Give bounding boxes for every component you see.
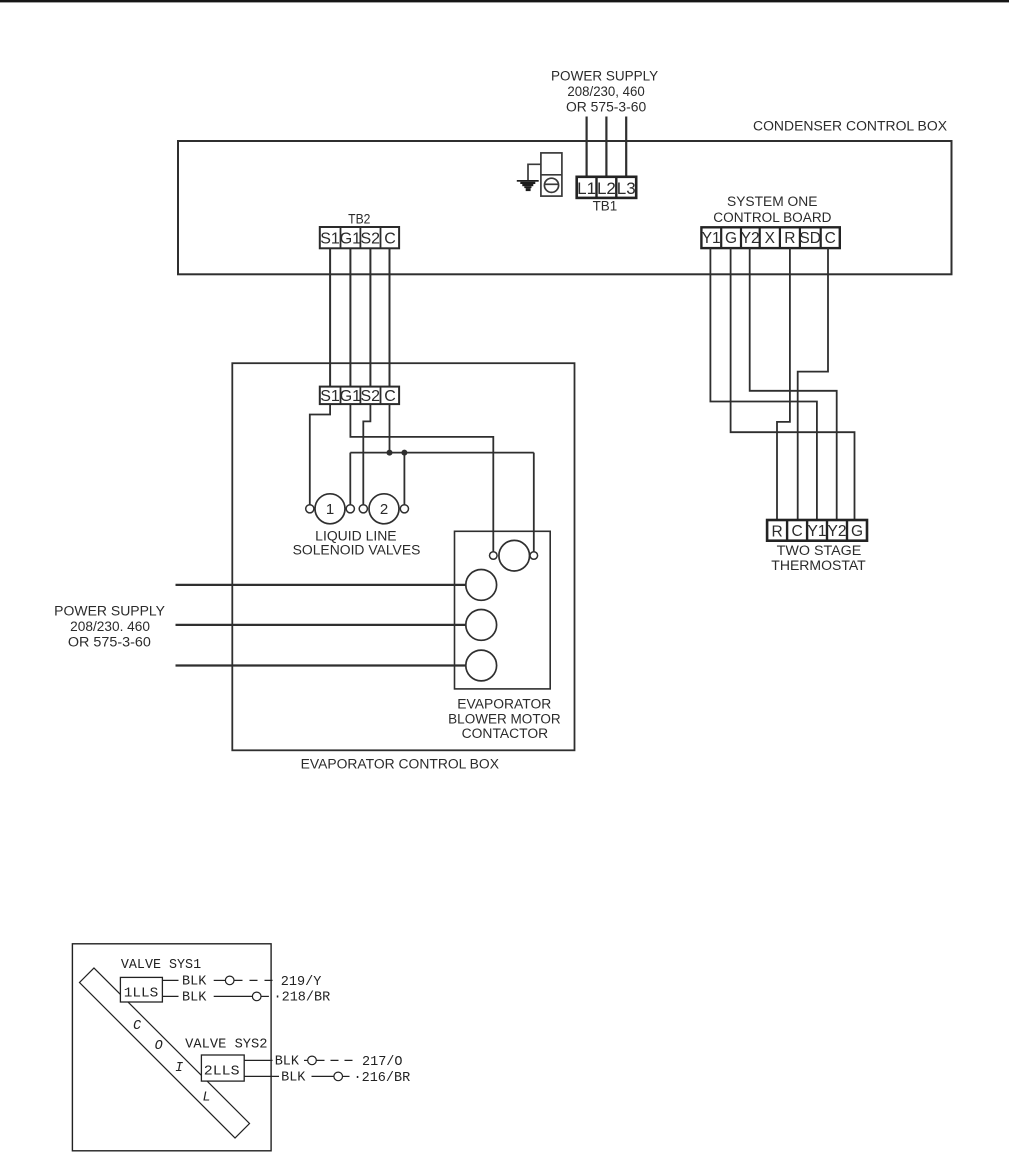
svg-text:CONDENSER CONTROL BOX: CONDENSER CONTROL BOX (753, 119, 947, 134)
ground lug component (541, 153, 562, 196)
2LLS box (201, 1055, 244, 1081)
svg-text:CONTACTOR: CONTACTOR (462, 726, 549, 741)
terminal block TB1 (577, 177, 637, 198)
svg-text:BLOWER MOTOR: BLOWER MOTOR (448, 711, 561, 726)
svg-text:G1: G1 (340, 388, 361, 405)
terminal block TB2 (320, 227, 399, 248)
evap strip labels (320, 388, 396, 405)
svg-text:LIQUID LINE: LIQUID LINE (315, 528, 396, 543)
TB2 pin labels S1 G1 S2 C (320, 230, 396, 247)
svg-text:BLK: BLK (275, 1055, 300, 1070)
svg-text:BLK: BLK (182, 975, 207, 990)
wire TB2 C down (389, 248, 391, 386)
contactor pole circle 1 (466, 570, 497, 601)
terminal circle (sys1 bottom) (252, 992, 261, 1001)
svg-text:Y2: Y2 (828, 523, 847, 540)
wire 1LLS top lead (162, 979, 178, 981)
svg-text:TWO STAGE: TWO STAGE (777, 543, 862, 558)
svg-text:1: 1 (326, 501, 334, 518)
wire to terminal (sys2 bottom) (312, 1075, 334, 1077)
stub wire (sys1 bottom) (261, 995, 269, 997)
wire L2 (605, 117, 607, 178)
svg-text:VALVE SYS2: VALVE SYS2 (185, 1037, 267, 1052)
svg-text:TB2: TB2 (348, 212, 370, 227)
svg-text:POWER SUPPLY: POWER SUPPLY (551, 69, 658, 84)
evaporator terminal strip S1 G1 S2 C (320, 387, 399, 405)
wire 2LLS top lead (244, 1059, 272, 1061)
wire board Y1 to thermostat Y1 (710, 248, 817, 520)
svg-text:C: C (133, 1019, 141, 1034)
wire S1 to valve 1 left pin (310, 404, 330, 505)
svg-text:VALVE SYS1: VALVE SYS1 (121, 958, 201, 973)
wire TB2 S2 down (369, 248, 371, 386)
label: power supply (top) (551, 69, 658, 115)
svg-text:L: L (203, 1091, 211, 1106)
wire board G to thermostat G (731, 248, 855, 520)
dashed wire 219/Y (235, 979, 278, 981)
svg-text:SYSTEM ONE: SYSTEM ONE (727, 194, 817, 209)
svg-text:TB1: TB1 (593, 199, 618, 214)
svg-text:SD: SD (799, 230, 821, 247)
junction dot valve2 riser (401, 450, 407, 456)
svg-text:C: C (384, 388, 396, 405)
svg-text:2LLS: 2LLS (204, 1064, 240, 1079)
terminal circle (sys2 bottom) (334, 1072, 343, 1081)
wire L1 (585, 117, 587, 178)
svg-text:C: C (825, 230, 836, 247)
svg-text:X: X (765, 230, 776, 247)
svg-text:R: R (784, 230, 795, 247)
wire 1LLS bottom lead (162, 995, 178, 997)
evaporator control box outline (232, 363, 574, 750)
wire L3 (625, 117, 627, 178)
label: system one control board (713, 194, 831, 225)
svg-text:S1: S1 (320, 230, 340, 247)
contactor pole circle 3 (466, 650, 497, 681)
power feed wire 3 (176, 664, 466, 666)
stub wire (sys2 bottom) (343, 1075, 350, 1077)
coil bar (diagonal) (79, 968, 249, 1138)
wire G1 to contactor coil left pin (350, 404, 493, 552)
wire TB2 S1 down (329, 248, 331, 386)
contactor coil circle (499, 540, 530, 571)
wire C down to junction (389, 404, 391, 453)
svg-text:EVAPORATOR CONTROL BOX: EVAPORATOR CONTROL BOX (301, 757, 499, 772)
valve 1 right pin (346, 505, 354, 513)
wire to terminal (sys1 bottom) (214, 995, 253, 997)
ground wire (528, 164, 541, 180)
svg-text:Y2: Y2 (741, 230, 760, 247)
terminal circle (sys1 top) (225, 976, 234, 985)
solenoid valve 2 (369, 494, 399, 524)
wire board Y2 to thermostat Y2 (750, 248, 837, 520)
svg-text:R: R (771, 523, 782, 540)
svg-text:2: 2 (380, 501, 388, 518)
svg-text:C: C (791, 523, 802, 540)
svg-text:S1: S1 (320, 388, 340, 405)
svg-text:OR 575-3-60: OR 575-3-60 (68, 635, 151, 650)
svg-text:·216/BR: ·216/BR (354, 1071, 411, 1086)
evaporator blower motor contactor box (455, 531, 551, 689)
contactor pole circle 2 (466, 610, 497, 641)
solenoid valve 1 (315, 494, 345, 524)
svg-text:219/Y: 219/Y (281, 975, 322, 990)
wire riser valve1 right pin (349, 453, 351, 506)
svg-text:OR 575-3-60: OR 575-3-60 (566, 100, 646, 115)
svg-text:Y1: Y1 (808, 523, 827, 540)
svg-text:1LLS: 1LLS (124, 986, 159, 1001)
svg-text:217/O: 217/O (362, 1055, 403, 1070)
valve 2 right pin (400, 505, 408, 513)
label: power supply (left) (54, 603, 165, 649)
svg-text:G: G (851, 523, 863, 540)
wire C bus to contactor coil right pin (533, 453, 535, 552)
terminal circle (sys2 top) (308, 1056, 317, 1065)
wire TB2 G1 down (349, 248, 351, 386)
system one control board terminal strip (701, 227, 839, 248)
wire S2 to valve 2 left pin (363, 404, 370, 505)
top rule (0, 0, 1009, 2)
wire board R to thermostat R (777, 248, 790, 520)
junction dot C (387, 450, 393, 456)
valve 2 left pin (359, 505, 367, 513)
ground symbol (517, 180, 539, 191)
svg-text:L2: L2 (597, 179, 616, 198)
svg-text:208/230, 460: 208/230, 460 (567, 84, 644, 99)
contactor coil left pin (490, 552, 498, 560)
wire board C to thermostat C (798, 248, 828, 520)
power feed wire 2 (176, 624, 466, 626)
svg-text:S2: S2 (361, 388, 381, 405)
valve 1 left pin (306, 505, 314, 513)
thermostat pin labels R C Y1 Y2 G (771, 523, 863, 540)
contactor coil right pin (530, 552, 538, 560)
svg-text:G: G (725, 230, 737, 247)
svg-text:C: C (384, 230, 396, 247)
svg-text:G1: G1 (340, 230, 361, 247)
svg-text:·218/BR: ·218/BR (274, 991, 331, 1006)
wire 2LLS bottom lead (244, 1075, 279, 1077)
svg-text:O: O (155, 1039, 163, 1054)
label: liquid line solenoid valves (293, 528, 421, 557)
wire to terminal (sys1 top) (214, 979, 226, 981)
svg-text:S2: S2 (361, 230, 381, 247)
wire riser valve2 right pin (403, 453, 405, 506)
svg-text:BLK: BLK (281, 1071, 306, 1086)
svg-text:I: I (175, 1061, 183, 1076)
svg-text:SOLENOID VALVES: SOLENOID VALVES (293, 543, 421, 558)
board pin labels Y1 G Y2 X R SD C (702, 230, 836, 247)
wire to terminal (sys2 top) (304, 1059, 308, 1061)
svg-text:EVAPORATOR: EVAPORATOR (457, 697, 551, 712)
svg-text:POWER SUPPLY: POWER SUPPLY (54, 603, 165, 618)
two stage thermostat terminal strip (767, 520, 867, 541)
wire C bus horizontal (350, 452, 534, 454)
label: evaporator blower motor contactor (448, 697, 561, 741)
valve detail outer box (72, 944, 271, 1151)
svg-text:Y1: Y1 (702, 230, 721, 247)
condenser control box outline (178, 141, 952, 274)
dashed wire 217/O (317, 1059, 355, 1061)
1LLS box (120, 977, 162, 1002)
svg-text:208/230. 460: 208/230. 460 (70, 619, 150, 634)
svg-text:BLK: BLK (182, 991, 207, 1006)
svg-text:CONTROL BOARD: CONTROL BOARD (713, 210, 831, 225)
label: two stage thermostat (771, 543, 866, 573)
svg-text:L3: L3 (617, 179, 636, 198)
svg-text:THERMOSTAT: THERMOSTAT (771, 558, 866, 573)
svg-text:L1: L1 (577, 179, 596, 198)
power feed wire 1 (176, 584, 466, 586)
